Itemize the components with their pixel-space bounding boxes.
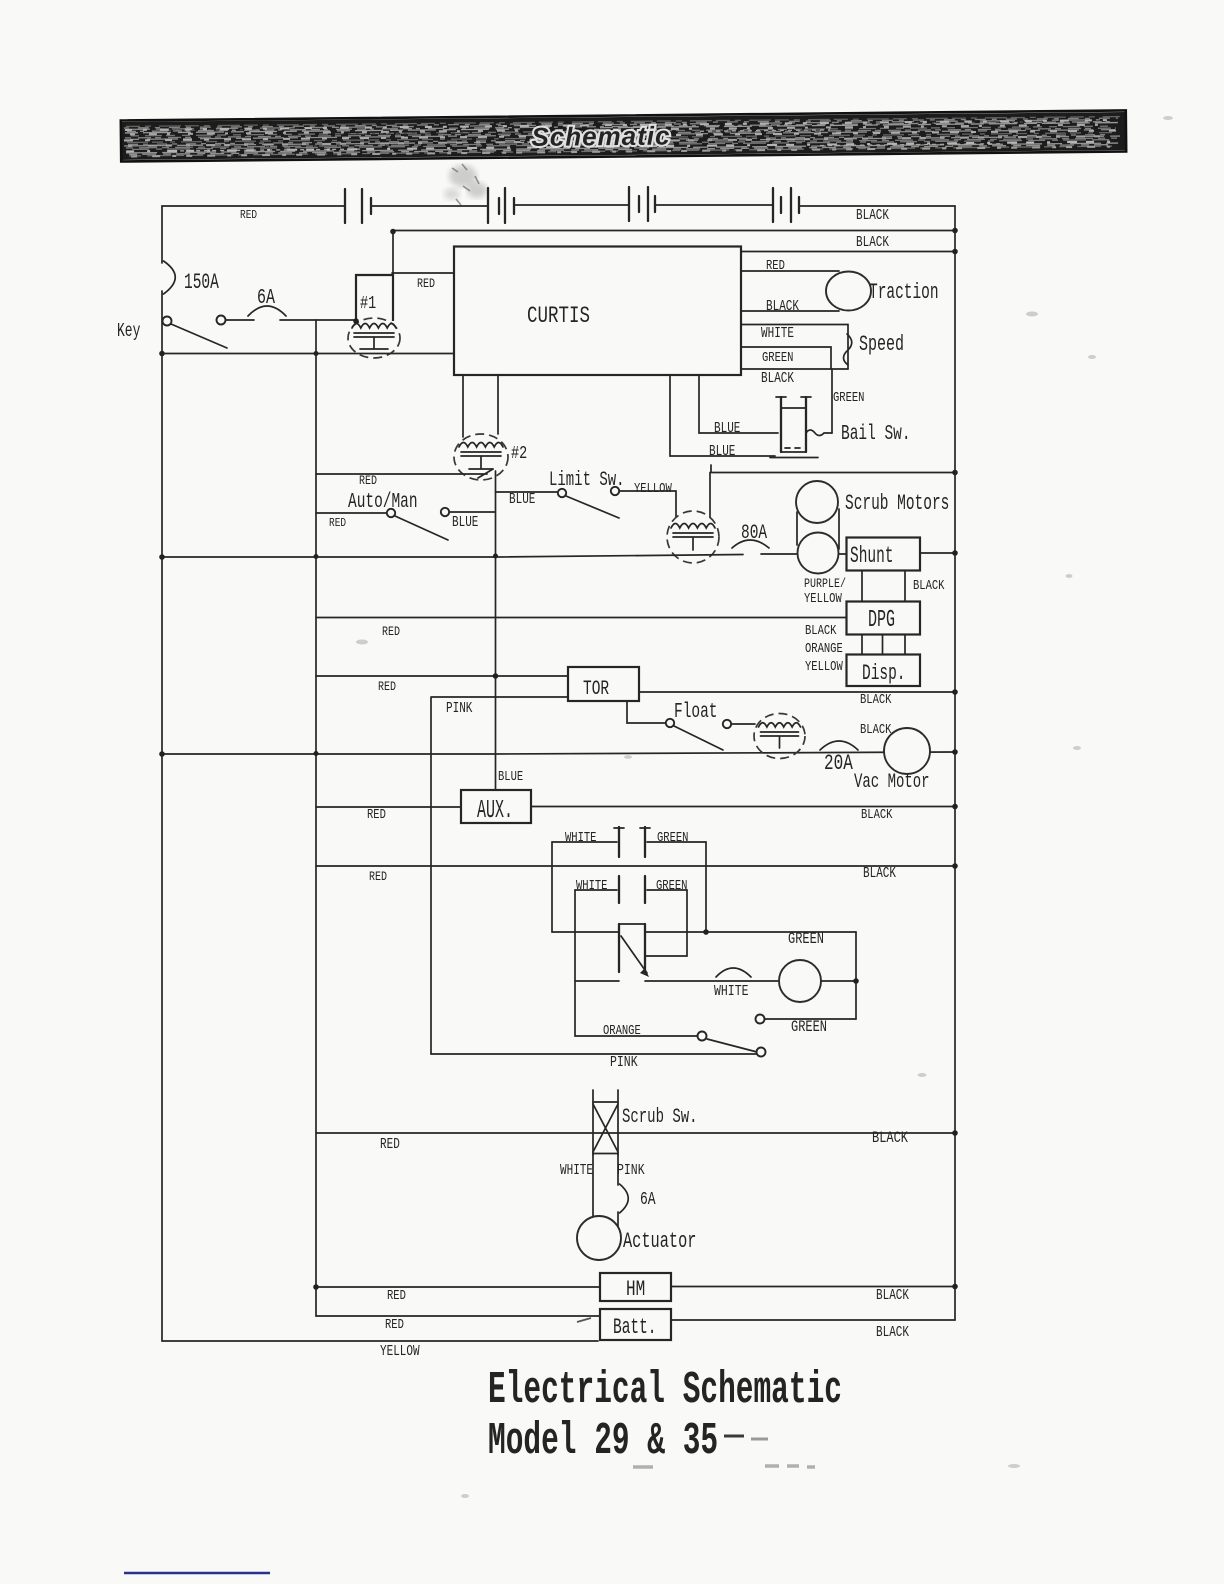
wire: left bus vertical xyxy=(161,206,163,1341)
wire: brush motor row y981 xyxy=(575,980,779,982)
wire: CURTIS bottom BLUE lower loop xyxy=(670,375,775,456)
node xyxy=(314,554,319,559)
svg-text:PINK: PINK xyxy=(610,1055,638,1072)
svg-text:GREEN: GREEN xyxy=(657,830,688,846)
speed pot bracket xyxy=(844,334,852,365)
svg-text:#1: #1 xyxy=(360,292,376,314)
svg-text:#2: #2 xyxy=(511,442,527,464)
shunt box xyxy=(847,538,921,571)
fuse 6A arc xyxy=(248,306,286,316)
svg-text:Actuator: Actuator xyxy=(623,1228,696,1254)
svg-text:BLACK: BLACK xyxy=(766,298,799,315)
wire: YELLOW bottom xyxy=(162,1340,598,1342)
contactor 80A xyxy=(667,511,719,563)
svg-text:RED: RED xyxy=(766,258,785,274)
scrub motor M2 upper xyxy=(796,481,838,523)
svg-text:WHITE: WHITE xyxy=(714,984,748,1001)
wire: #2 coil down the aux feed vertical xyxy=(495,471,497,789)
svg-text:Disp.: Disp. xyxy=(862,661,905,686)
TOR box xyxy=(568,667,639,701)
svg-text:BLUE: BLUE xyxy=(714,420,740,437)
node xyxy=(314,751,319,756)
wire: shunt to DPG connectors xyxy=(862,571,905,602)
svg-text:BLUE: BLUE xyxy=(452,514,478,531)
wire: pink drop vertical xyxy=(431,697,568,1054)
battery B4 xyxy=(773,188,791,222)
svg-text:RED: RED xyxy=(382,625,400,640)
node xyxy=(952,228,958,234)
svg-text:GREEN: GREEN xyxy=(833,390,864,406)
svg-text:BLACK: BLACK xyxy=(863,865,896,882)
wire: HM to right bus xyxy=(671,1286,955,1288)
key switch blade xyxy=(171,324,227,348)
battery B2 xyxy=(488,188,505,223)
node xyxy=(952,1130,958,1136)
node xyxy=(952,804,958,810)
svg-text:BLACK: BLACK xyxy=(860,722,892,738)
display box xyxy=(847,655,921,687)
contactor #1 body xyxy=(356,273,393,321)
wire: second rail from #1 to right bus xyxy=(393,230,955,232)
actuator motor M6 xyxy=(577,1216,621,1260)
contactor vac feed xyxy=(754,714,805,759)
blue underline bottom left xyxy=(124,1572,270,1575)
CURTIS controller box U1 xyxy=(454,247,741,376)
svg-text:DPG: DPG xyxy=(868,607,895,635)
svg-text:WHITE: WHITE xyxy=(576,878,607,894)
svg-text:BLUE: BLUE xyxy=(509,491,535,508)
svg-text:YELLOW: YELLOW xyxy=(805,659,843,675)
node xyxy=(853,978,859,984)
svg-text:Scrub Motors: Scrub Motors xyxy=(845,491,949,516)
svg-text:WHITE: WHITE xyxy=(560,1162,593,1179)
svg-text:AUX.: AUX. xyxy=(477,797,513,825)
node xyxy=(952,689,958,695)
vac motor M4 xyxy=(884,728,930,774)
svg-text:ORANGE: ORANGE xyxy=(805,641,843,657)
svg-text:BLACK: BLACK xyxy=(856,234,889,251)
svg-text:BLACK: BLACK xyxy=(761,370,794,387)
svg-text:RED: RED xyxy=(329,517,346,530)
wire: CURTIS BLACK lower xyxy=(742,368,849,370)
bail switch S1 xyxy=(770,397,832,458)
title dashes xyxy=(724,1435,744,1438)
svg-text:6A: 6A xyxy=(257,287,275,310)
DPG box xyxy=(847,602,921,635)
schematic lower half xyxy=(159,667,958,1359)
node xyxy=(952,863,958,869)
node xyxy=(159,351,165,357)
svg-text:GREEN: GREEN xyxy=(791,1019,827,1037)
svg-text:YELLOW: YELLOW xyxy=(804,591,842,607)
wire: y932 row xyxy=(552,931,856,933)
svg-text:GREEN: GREEN xyxy=(656,878,687,894)
node xyxy=(952,1284,958,1290)
wire: RED to HM xyxy=(316,1286,600,1288)
contactor #1 coil xyxy=(348,318,400,358)
node xyxy=(159,554,165,560)
svg-text:BLACK: BLACK xyxy=(860,692,892,708)
svg-text:BLACK: BLACK xyxy=(913,578,945,594)
wire: RED to #2 coil xyxy=(316,469,493,478)
switch blade Limit Sw xyxy=(566,496,619,518)
traction motor M1 xyxy=(826,272,871,311)
node xyxy=(952,749,958,755)
svg-text:6A: 6A xyxy=(640,1189,656,1210)
wire: row1 left loop xyxy=(551,842,553,932)
scrub motor M3 lower xyxy=(798,533,839,574)
svg-text:BLACK: BLACK xyxy=(876,1287,909,1304)
wire: row2 left drop xyxy=(574,890,576,1036)
svg-text:BLUE: BLUE xyxy=(498,769,523,785)
svg-text:RED: RED xyxy=(240,209,257,222)
wire: DPG to Disp connectors xyxy=(862,635,905,655)
wire: CURTIS bottom to #2 contactor xyxy=(463,375,498,437)
node xyxy=(703,929,709,935)
wire: TOR to right bus BLACK xyxy=(639,691,955,693)
svg-text:WHITE: WHITE xyxy=(761,325,794,342)
svg-text:Shunt: Shunt xyxy=(850,543,893,569)
svg-text:PINK: PINK xyxy=(617,1163,645,1180)
svg-text:Batt.: Batt. xyxy=(613,1315,656,1340)
wire: main left vertical bus (x=316) xyxy=(315,320,317,1316)
svg-text:GREEN: GREEN xyxy=(762,350,793,366)
svg-text:Scrub Sw.: Scrub Sw. xyxy=(622,1106,698,1129)
svg-text:YELLOW: YELLOW xyxy=(380,1343,420,1360)
svg-text:BLUE: BLUE xyxy=(709,443,735,460)
brush motor M5 xyxy=(779,960,821,1002)
wire: long rail y866 xyxy=(316,865,955,867)
svg-text:Key: Key xyxy=(117,320,140,342)
circuit breaker 150A xyxy=(164,261,176,294)
svg-text:RED: RED xyxy=(417,277,435,292)
svg-text:WHITE: WHITE xyxy=(565,830,596,846)
wire: #1 to CURTIS xyxy=(392,272,454,274)
contactor #2 xyxy=(454,434,508,480)
svg-text:Schematic: Schematic xyxy=(531,121,670,152)
wire: motor to green loop xyxy=(821,980,856,982)
switch blade Float xyxy=(674,726,723,750)
bottom smudges xyxy=(633,1466,815,1467)
svg-text:PURPLE/: PURPLE/ xyxy=(804,577,846,592)
wire: pink row xyxy=(431,1053,756,1055)
node xyxy=(159,751,165,757)
node xyxy=(952,470,958,476)
scan artifact dash xyxy=(577,1318,591,1322)
wire: key circuit to #1 xyxy=(226,319,357,321)
battery B1 xyxy=(345,189,362,223)
wire: bail to right bus xyxy=(711,465,955,473)
wire: GREEN down to bail switch xyxy=(831,369,833,433)
svg-text:20A: 20A xyxy=(824,751,853,776)
svg-text:BLACK: BLACK xyxy=(861,807,893,823)
svg-text:Electrical Schematic: Electrical Schematic xyxy=(488,1364,842,1416)
node xyxy=(493,673,499,679)
wire: long rail y753 xyxy=(162,752,955,754)
AUX box xyxy=(461,790,531,823)
battery meter box Batt xyxy=(600,1309,671,1340)
svg-text:RED: RED xyxy=(380,1136,400,1153)
wire: RED feed to TOR xyxy=(316,675,568,677)
wire: CURTIS WHITE (speed) xyxy=(742,325,849,370)
svg-text:Auto/Man: Auto/Man xyxy=(348,491,418,514)
wire: AUX to right bus BLACK xyxy=(531,806,955,808)
wire: row2 right loop xyxy=(646,890,687,956)
node: #1 input xyxy=(353,318,359,324)
wire: main horizontal y556 xyxy=(162,554,847,557)
relay changeover contact xyxy=(619,923,645,925)
svg-text:TOR: TOR xyxy=(583,678,609,701)
switch brush reverse xyxy=(698,1032,707,1041)
svg-text:BLACK: BLACK xyxy=(872,1130,909,1148)
svg-text:RED: RED xyxy=(367,807,386,823)
wire: CURTIS RED to traction motor xyxy=(742,270,840,272)
wire: top battery rail segments xyxy=(162,205,955,206)
svg-text:GREEN: GREEN xyxy=(788,931,824,949)
wire: third rail from CURTIS to right bus xyxy=(742,251,956,253)
key switch terminal xyxy=(163,317,172,326)
svg-text:RED: RED xyxy=(387,1288,406,1304)
battery B3 xyxy=(629,187,648,221)
header bar xyxy=(121,110,1126,161)
svg-text:ORANGE: ORANGE xyxy=(603,1023,641,1039)
scan smudge above battery 2 xyxy=(444,164,487,205)
wire: #1 top to second rail xyxy=(392,231,394,274)
svg-text:CURTIS: CURTIS xyxy=(527,304,590,330)
node xyxy=(313,1284,319,1290)
svg-text:Bail Sw.: Bail Sw. xyxy=(841,423,911,446)
wire: green lower xyxy=(756,1015,765,1024)
node xyxy=(390,229,396,235)
hour meter box HM xyxy=(600,1273,671,1301)
fuse 6A terminal xyxy=(217,316,226,325)
svg-text:BLACK: BLACK xyxy=(805,623,837,639)
node xyxy=(952,550,958,556)
wire: right bus vertical xyxy=(954,206,956,1320)
wire: scrub rail y1133 xyxy=(316,1132,955,1134)
wire: shunt to right bus xyxy=(920,552,955,554)
svg-text:150A: 150A xyxy=(184,270,219,295)
wire: RED to Batt xyxy=(316,1315,600,1317)
switch blade Auto/Man xyxy=(395,516,448,540)
svg-text:Speed: Speed xyxy=(859,331,904,357)
fuse WHITE xyxy=(716,968,751,977)
svg-text:BLACK: BLACK xyxy=(856,207,889,224)
faint scan specks xyxy=(356,116,1173,1498)
svg-text:Float: Float xyxy=(674,701,717,724)
svg-text:Vac Motor: Vac Motor xyxy=(854,771,930,794)
wire: RED to AUX xyxy=(316,806,461,808)
wire: motor tangents xyxy=(797,509,839,549)
node xyxy=(314,351,319,356)
node xyxy=(952,249,958,255)
node xyxy=(493,554,498,559)
svg-text:RED: RED xyxy=(359,474,377,489)
fuse 6A actuator xyxy=(620,1184,629,1213)
svg-text:PINK: PINK xyxy=(446,700,473,717)
wire: orange row xyxy=(575,1035,697,1037)
svg-text:Model 29 & 35: Model 29 & 35 xyxy=(488,1415,718,1467)
wire: green loop down xyxy=(855,932,857,1019)
svg-text:BLACK: BLACK xyxy=(876,1324,909,1341)
wire: DPG input from left bus xyxy=(316,617,847,619)
svg-text:RED: RED xyxy=(385,1317,404,1333)
wire: key rail to CURTIS xyxy=(162,353,454,355)
svg-text:YELLOW: YELLOW xyxy=(634,481,672,497)
contactor 80A feed xyxy=(709,473,711,518)
wire: row1 right loop xyxy=(705,842,707,932)
wire: CURTIS BLACK to traction motor xyxy=(742,310,840,312)
title xyxy=(124,1364,842,1573)
wire: CURTIS GREEN (speed) xyxy=(742,347,832,369)
wire: Batt to right bus xyxy=(671,1319,955,1321)
wire: CURTIS bottom BLUE upper loop xyxy=(699,375,778,433)
fuse 20A xyxy=(820,741,858,750)
svg-text:Traction: Traction xyxy=(869,280,939,305)
svg-text:RED: RED xyxy=(378,680,396,695)
svg-text:HM: HM xyxy=(626,1277,645,1302)
svg-text:RED: RED xyxy=(369,870,387,885)
wire: TOR to float switch xyxy=(627,701,665,723)
switch blade brush reverse xyxy=(707,1039,757,1052)
